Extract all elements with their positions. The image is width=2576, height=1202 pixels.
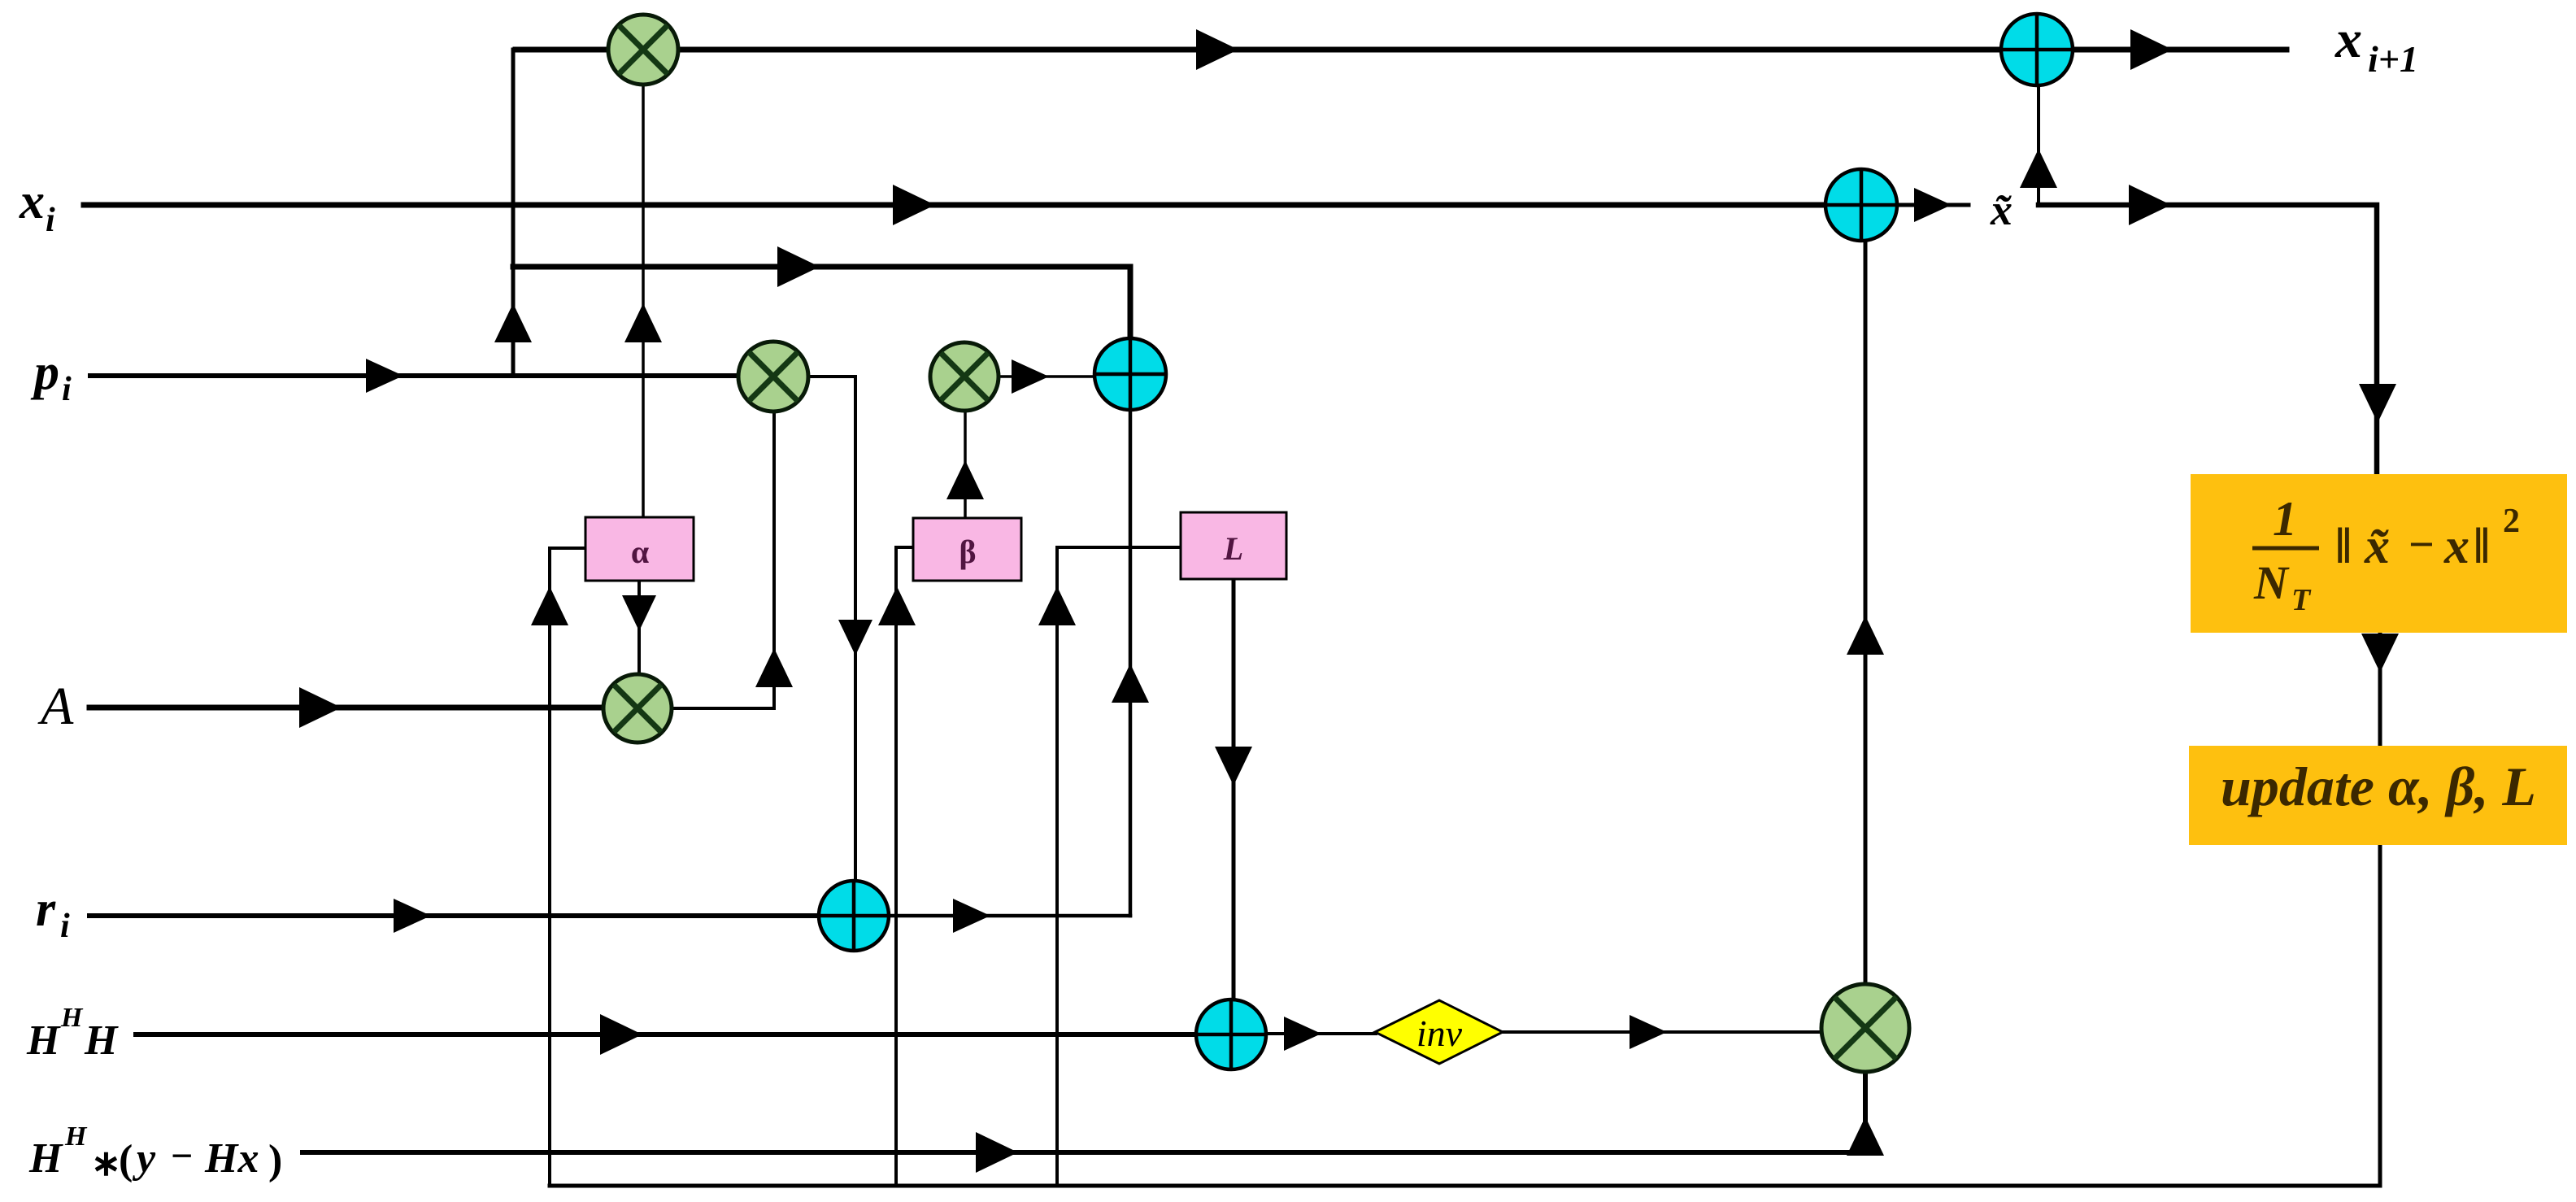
svg-text:H: H <box>60 1003 84 1033</box>
svg-text:1: 1 <box>2273 492 2297 546</box>
svg-text:x: x <box>2443 519 2469 574</box>
svg-text:H: H <box>64 1121 88 1152</box>
svg-text:L: L <box>1223 530 1243 567</box>
svg-text:Hx: Hx <box>204 1135 259 1182</box>
svg-text:‖: ‖ <box>2474 519 2490 574</box>
svg-text:p: p <box>30 345 59 400</box>
svg-text:i: i <box>62 371 72 408</box>
svg-text:x̃: x̃ <box>1990 185 2012 234</box>
svg-text:α: α <box>631 533 649 570</box>
svg-text:2: 2 <box>2503 503 2520 540</box>
svg-text:i: i <box>60 908 70 945</box>
svg-text:T: T <box>2291 583 2312 617</box>
svg-text:x: x <box>2334 10 2362 69</box>
svg-text:H: H <box>26 1017 61 1064</box>
svg-text:x̃: x̃ <box>2364 519 2390 574</box>
svg-text:‖: ‖ <box>2335 519 2352 574</box>
svg-text:i+1: i+1 <box>2368 38 2418 80</box>
svg-text:inv: inv <box>1416 1013 1463 1054</box>
svg-text:(: ( <box>119 1137 133 1183</box>
svg-text:−: − <box>2408 520 2435 570</box>
svg-text:∗: ∗ <box>91 1143 121 1183</box>
svg-text:): ) <box>268 1137 282 1183</box>
svg-text:β: β <box>959 533 976 570</box>
svg-text:i: i <box>46 202 55 239</box>
svg-text:update α, β, L: update α, β, L <box>2221 756 2536 817</box>
svg-text:A: A <box>37 677 74 736</box>
svg-text:H: H <box>28 1135 63 1182</box>
svg-text:x: x <box>19 174 45 229</box>
svg-text:−: − <box>171 1134 193 1178</box>
svg-text:r: r <box>36 882 56 937</box>
svg-text:H: H <box>84 1017 119 1064</box>
svg-text:N: N <box>2253 556 2290 609</box>
